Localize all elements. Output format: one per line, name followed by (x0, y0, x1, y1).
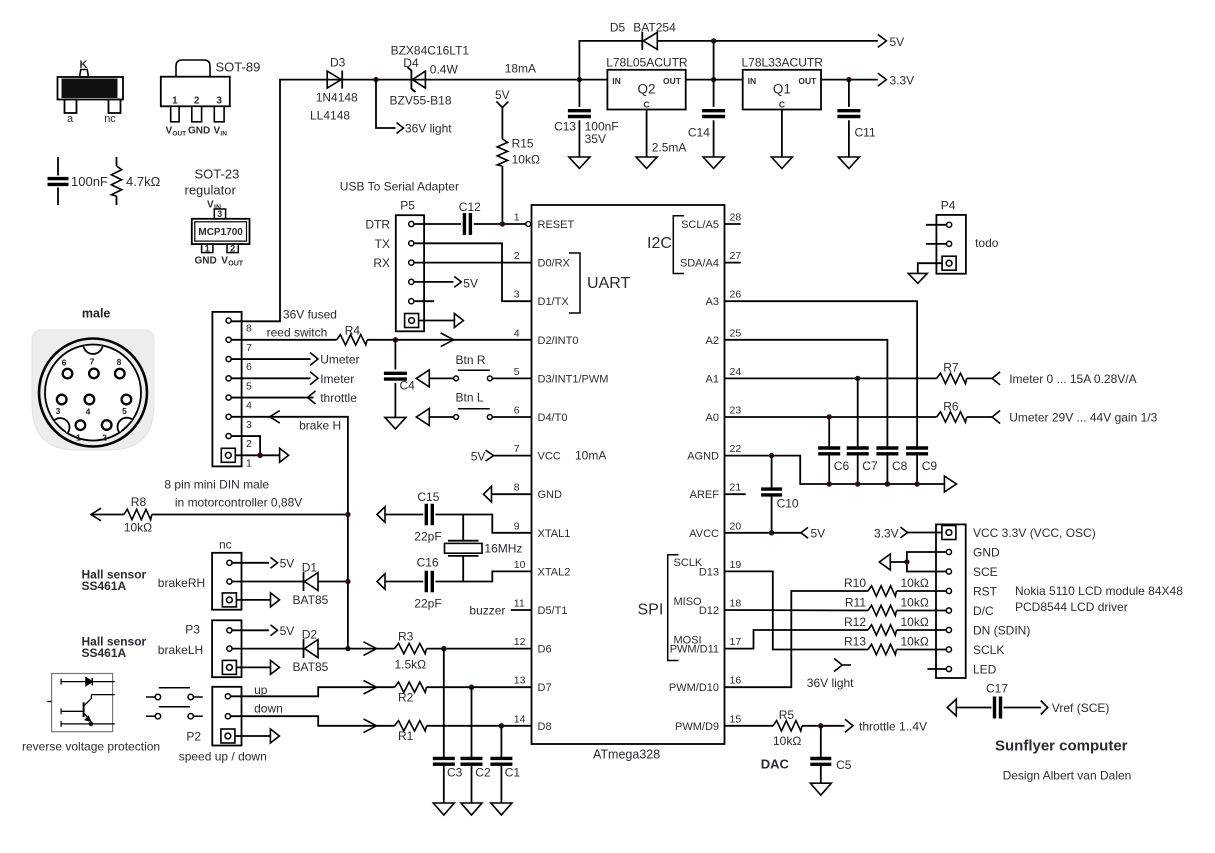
svg-text:3: 3 (216, 96, 222, 107)
svg-text:D5/T1: D5/T1 (538, 605, 568, 617)
crystal X1 16MHz (445, 541, 523, 556)
net arrow 5V at brakeRH (271, 557, 278, 568)
ground left of Btn L (416, 409, 429, 426)
connector P3 Hall sensor brakeLH (185, 620, 241, 677)
svg-text:2.5mA: 2.5mA (652, 141, 687, 155)
svg-text:P4: P4 (941, 199, 956, 213)
svg-text:20: 20 (730, 520, 742, 532)
regulator package SOT-89 (top view) (161, 60, 260, 138)
svg-text:Vref (SCE): Vref (SCE) (1052, 701, 1110, 715)
svg-text:D1: D1 (302, 561, 318, 575)
svg-text:C4: C4 (400, 379, 416, 393)
svg-text:AGND: AGND (687, 451, 719, 463)
wire: brakeRH shield pin (236, 599, 270, 601)
wire: A2 pin 25 to C8 (725, 340, 888, 447)
svg-text:RST: RST (973, 585, 998, 599)
signal chevron on D8 wire (364, 719, 377, 733)
UART bracket (569, 253, 580, 313)
svg-text:Imeter 0 ... 15A 0.28V/A: Imeter 0 ... 15A 0.28V/A (1009, 372, 1136, 386)
connector P4 (936, 199, 966, 274)
svg-text:R11: R11 (845, 596, 866, 610)
net arrow 3.3V (878, 73, 887, 86)
svg-text:10kΩ: 10kΩ (512, 153, 540, 167)
net chevron 5V to VCC (486, 450, 494, 461)
svg-text:8: 8 (117, 357, 122, 367)
svg-text:D1/TX: D1/TX (538, 296, 570, 308)
wire: brakeLH pin to D2 (232, 648, 303, 650)
svg-text:brake H: brake H (299, 418, 341, 432)
frame terminal right of DIN (280, 448, 289, 462)
svg-text:10kΩ: 10kΩ (901, 615, 929, 629)
svg-text:21: 21 (730, 482, 742, 494)
resistor 4.7kOhm (legend symbol) (111, 157, 160, 205)
net arrow Vref (SCE) (1041, 701, 1048, 715)
svg-text:R7: R7 (943, 361, 959, 375)
ground below C14 (703, 157, 724, 169)
svg-text:PWM/D9: PWM/D9 (675, 721, 719, 733)
wire: C16 to XTAL2 pin 10 (436, 571, 532, 581)
svg-text:BAT85: BAT85 (293, 593, 329, 607)
wire: P5 RX to D0/RX pin 2 (414, 262, 531, 264)
svg-text:4: 4 (514, 327, 520, 339)
svg-text:male: male (82, 307, 111, 321)
net arrow R8 output (91, 508, 101, 521)
svg-text:C12: C12 (459, 200, 481, 214)
svg-text:SS461A: SS461A (82, 579, 127, 593)
net chevron 36V light (LCD LED) (834, 659, 842, 672)
junction: AGND / C10 (769, 453, 774, 458)
svg-text:SDA/A4: SDA/A4 (680, 258, 719, 270)
svg-text:27: 27 (730, 250, 742, 262)
svg-text:I2C: I2C (647, 235, 672, 252)
ground at LCD (879, 554, 890, 570)
wire: C17 to Vref arrow (1004, 707, 1042, 709)
svg-text:C11: C11 (855, 126, 876, 140)
svg-text:C6: C6 (834, 459, 850, 473)
connector LCD Nokia 5110 (936, 524, 966, 678)
svg-text:VCC: VCC (538, 451, 561, 463)
ground at GND pin 8 (484, 486, 492, 502)
analog ground rail arrow (944, 476, 956, 492)
svg-text:down: down (254, 702, 283, 716)
svg-text:3: 3 (514, 289, 520, 301)
svg-text:D6: D6 (538, 644, 552, 656)
svg-text:XTAL2: XTAL2 (538, 566, 571, 578)
ground below C11 (838, 157, 859, 169)
svg-text:R8: R8 (131, 495, 147, 509)
svg-text:MCP1700: MCP1700 (198, 227, 243, 238)
svg-text:Imeter: Imeter (320, 372, 354, 386)
svg-text:13: 13 (514, 675, 526, 687)
wire: P4 pin3 to ground (918, 263, 942, 273)
svg-text:22pF: 22pF (414, 597, 441, 611)
svg-text:nc: nc (219, 538, 232, 552)
svg-text:up: up (254, 683, 268, 697)
wire: P3 shield pin (236, 666, 270, 668)
svg-text:R12: R12 (844, 615, 866, 629)
capacitor C7 (847, 378, 878, 484)
wire: SCL/A5 pin 28 stub (725, 223, 741, 225)
junction: A1 / C7 (855, 376, 860, 381)
svg-text:regulator: regulator (185, 183, 237, 198)
svg-text:D2: D2 (302, 628, 318, 642)
svg-text:10kΩ: 10kΩ (124, 521, 152, 535)
svg-text:28: 28 (730, 212, 742, 224)
junction: R8 / brake trunk (345, 512, 350, 517)
signal chevron on D2/INT0 wire (441, 333, 454, 347)
reverse voltage protection circuit drawing (47, 674, 114, 732)
svg-text:C9: C9 (922, 459, 938, 473)
svg-text:AREF: AREF (690, 489, 720, 501)
svg-text:23: 23 (730, 405, 742, 417)
svg-text:1.5kΩ: 1.5kΩ (395, 658, 427, 672)
wire: PWM/D9 pin 15 to R5 (725, 725, 774, 727)
svg-text:D8: D8 (538, 721, 552, 733)
svg-text:5V: 5V (471, 450, 486, 464)
pushbutton Btn R (429, 353, 531, 381)
connector P2 speed up/down (186, 687, 241, 746)
SPI bracket (668, 555, 679, 661)
svg-text:3.3V: 3.3V (890, 74, 915, 88)
inversion bubble on RESET (526, 222, 531, 227)
svg-text:R13: R13 (844, 635, 866, 649)
net arrow 5V at P5 (454, 277, 461, 288)
junction: 3.3V rail / C11 (846, 77, 851, 82)
svg-text:11: 11 (514, 598, 525, 610)
wire: Q1 C pin to ground (781, 110, 783, 158)
wire: D1 to brake trunk (318, 581, 348, 583)
wire: D5/T1 pin 11 stub (511, 609, 532, 611)
svg-text:speed up / down: speed up / down (179, 750, 267, 764)
ground below C2 (461, 803, 482, 815)
svg-text:19: 19 (730, 559, 742, 571)
wire: DIN pin4 throttle (232, 397, 314, 399)
svg-text:GND: GND (195, 256, 217, 267)
svg-text:7: 7 (90, 357, 95, 367)
svg-text:SCLK: SCLK (674, 557, 703, 569)
svg-text:2: 2 (246, 438, 252, 450)
junction: DIN pin1/pin2 (257, 453, 262, 458)
svg-text:1: 1 (76, 433, 81, 443)
svg-text:26: 26 (730, 289, 742, 301)
svg-text:PWM/D10: PWM/D10 (669, 682, 719, 694)
svg-text:3: 3 (246, 419, 252, 431)
capacitor C2 (461, 687, 491, 803)
pushbutton Btn L (429, 390, 531, 419)
net arrow brake H (270, 411, 280, 424)
svg-text:C10: C10 (777, 497, 799, 511)
svg-text:10kΩ: 10kΩ (901, 576, 929, 590)
frame terminal P3 (271, 660, 280, 674)
resistor R4 (337, 324, 368, 346)
svg-text:0.4W: 0.4W (430, 63, 459, 77)
svg-text:MISO: MISO (674, 596, 703, 608)
svg-text:reed switch: reed switch (267, 326, 328, 340)
svg-text:R2: R2 (398, 691, 414, 705)
resistor R7 (937, 361, 967, 384)
regulator MCP1700 SOT-23 pinout drawing (185, 167, 250, 268)
svg-text:3.3V: 3.3V (874, 527, 899, 541)
svg-text:AVCC: AVCC (689, 528, 719, 540)
svg-text:L78L33ACUTR: L78L33ACUTR (742, 56, 824, 70)
wire: P3 5V pin (232, 629, 269, 631)
capacitor C8 (876, 448, 907, 484)
svg-text:A2: A2 (706, 335, 719, 347)
svg-text:IN: IN (220, 131, 227, 138)
wire: P5 pin4 to 5V (414, 281, 453, 283)
svg-text:throttle: throttle (320, 391, 357, 405)
svg-text:ATmega328: ATmega328 (593, 748, 660, 762)
wire: A3 pin 26 to C9 (725, 301, 918, 446)
ground left of C16 (377, 574, 385, 590)
capacitor 100nF (legend symbol) (48, 157, 108, 205)
svg-text:2: 2 (102, 433, 107, 443)
svg-text:9: 9 (514, 520, 520, 532)
wire: AVCC pin 20 to 5V (725, 532, 802, 534)
svg-text:BAT254: BAT254 (633, 21, 676, 35)
wire: branch up to D5 and 5V rail (579, 41, 642, 80)
wire: D12 pin 18 to D/C row (725, 609, 869, 612)
wire: R4 to D2/INT0 pin 4 (367, 339, 531, 341)
svg-text:5V: 5V (463, 276, 478, 290)
svg-text:RESET: RESET (538, 219, 575, 231)
wire: R3 to D6 pin 12 (427, 648, 532, 650)
junction: R1 / C1 (499, 723, 504, 728)
svg-text:Umeter: Umeter (320, 353, 359, 367)
junction: C9 on rail (914, 481, 919, 486)
svg-text:1: 1 (246, 457, 252, 469)
svg-text:C17: C17 (986, 682, 1008, 696)
svg-text:XTAL1: XTAL1 (538, 528, 571, 540)
svg-text:1: 1 (514, 212, 520, 224)
svg-text:Nokia 5110 LCD module 84X48: Nokia 5110 LCD module 84X48 (1015, 584, 1183, 598)
svg-text:MOSI: MOSI (674, 635, 702, 647)
frame terminal right of P5 (454, 314, 463, 328)
svg-text:22pF: 22pF (414, 530, 441, 544)
svg-text:P2: P2 (186, 730, 201, 744)
wire: DIN pin1 to frame arrow (235, 454, 279, 456)
junction: C6 on rail (827, 481, 832, 486)
capacitor C15 22pF (385, 490, 442, 544)
svg-text:36V fused: 36V fused (283, 308, 337, 322)
junction: AVCC / C10 (769, 530, 774, 535)
resistor R10 10kOhm (844, 576, 929, 596)
svg-text:D4/T0: D4/T0 (538, 412, 568, 424)
svg-text:17: 17 (730, 636, 742, 648)
svg-text:LL4148: LL4148 (310, 109, 350, 123)
svg-text:2: 2 (514, 250, 520, 262)
svg-text:SOT-89: SOT-89 (216, 60, 261, 75)
wire: SDA/A4 pin 27 stub (725, 262, 741, 264)
svg-text:3: 3 (217, 209, 222, 219)
connector J1 8-pin mini DIN (212, 312, 252, 469)
svg-text:5: 5 (514, 366, 520, 378)
svg-text:5V: 5V (280, 624, 295, 638)
ground below Q2 (636, 157, 657, 169)
svg-text:5: 5 (246, 380, 252, 392)
svg-text:nc: nc (104, 113, 116, 125)
svg-text:P5: P5 (400, 199, 415, 213)
connector P5 (365, 199, 424, 332)
junction: R5 / C5 (818, 723, 823, 728)
switch down (speed down) (146, 707, 203, 719)
svg-text:16: 16 (730, 675, 742, 687)
svg-text:TX: TX (375, 237, 390, 251)
svg-text:14: 14 (514, 713, 526, 725)
svg-text:A1: A1 (706, 373, 719, 385)
wire: D13 pin 19 to SCLK row (725, 571, 869, 649)
wire: D11 pin 17 to DN row (725, 630, 869, 649)
capacitor C17 (986, 682, 1008, 719)
resistor R15 10kOhm (497, 137, 540, 167)
wire: nc pin to 5V (232, 562, 269, 564)
junction: D3 cathode / 36V light tap (373, 77, 378, 82)
svg-text:4: 4 (246, 400, 252, 412)
svg-text:Umeter 29V ... 44V gain 1/3: Umeter 29V ... 44V gain 1/3 (1009, 411, 1157, 425)
net arrow 5V at AVCC (801, 527, 808, 538)
svg-text:todo: todo (975, 236, 999, 250)
capacitor C6 (818, 417, 849, 484)
wire: 3.3V to LCD VCC (908, 532, 942, 534)
svg-text:1: 1 (172, 96, 178, 107)
signal chevron on D7 wire (364, 680, 377, 694)
resistor R2 (395, 682, 427, 705)
wire: arrow to R8 (91, 514, 124, 516)
svg-text:GND: GND (973, 546, 1000, 560)
svg-text:D12: D12 (699, 605, 719, 617)
wire: DIN pin5 Imeter (232, 377, 311, 379)
ground below C3 (433, 803, 454, 815)
svg-text:D5: D5 (610, 21, 626, 35)
wire: 36V light tap (376, 80, 396, 128)
svg-text:R1: R1 (398, 729, 414, 743)
wire: ground to C17 (956, 707, 991, 709)
svg-text:7: 7 (514, 443, 520, 455)
wire: chevron to R1 (363, 725, 395, 727)
wire: A1 pin 24 to R7 (725, 377, 937, 379)
net arrow 5V down (496, 102, 508, 108)
wire: Q2 C pin to ground (646, 110, 648, 158)
svg-text:D2/INT0: D2/INT0 (538, 335, 579, 347)
wire: P2 shield pin (235, 735, 271, 737)
regulator U-Q1 L78L33ACUTR (742, 56, 824, 110)
ground left of C17 (947, 699, 956, 716)
wire: DIN pin6 Umeter (232, 358, 311, 360)
svg-text:P3: P3 (185, 623, 200, 637)
svg-text:C3: C3 (447, 765, 463, 779)
wire: 5V to R15 (501, 108, 503, 140)
svg-text:R15: R15 (512, 137, 534, 151)
junction: R2 / C2 (469, 685, 474, 690)
svg-text:10kΩ: 10kΩ (901, 635, 929, 649)
svg-text:C13: C13 (554, 120, 576, 134)
svg-text:R3: R3 (398, 630, 414, 644)
svg-text:25: 25 (730, 327, 742, 339)
wire: P5 pin5 stub (414, 300, 434, 302)
signal chevron on D6 wire (364, 642, 377, 656)
wire: R10 to LCD RST (897, 590, 947, 592)
capacitor C10 (761, 456, 799, 533)
svg-text:5V: 5V (811, 527, 826, 541)
svg-text:2: 2 (230, 244, 235, 254)
svg-text:LED: LED (973, 663, 997, 677)
junction: C8 on rail (885, 481, 890, 486)
svg-text:C8: C8 (892, 459, 908, 473)
svg-text:C14: C14 (688, 126, 710, 140)
svg-text:10kΩ: 10kΩ (901, 596, 929, 610)
IC U1 ATmega328 body (532, 205, 725, 744)
capacitor C16 22pF (385, 556, 442, 611)
svg-text:C: C (643, 100, 649, 110)
svg-text:C2: C2 (475, 765, 491, 779)
diode D1 BAT85 (293, 561, 329, 608)
svg-text:OUT: OUT (798, 76, 817, 86)
svg-text:5: 5 (122, 406, 127, 416)
svg-text:Sunflyer computer: Sunflyer computer (995, 738, 1128, 755)
wire: R8 to brake trunk (152, 514, 348, 516)
svg-text:V: V (221, 256, 228, 267)
capacitor C14 (688, 41, 725, 157)
capacitor C9 (906, 448, 937, 484)
svg-text:USB To Serial Adapter: USB To Serial Adapter (340, 180, 459, 194)
wire: Q2 OUT to Q1 IN (686, 79, 743, 81)
svg-text:3: 3 (56, 406, 61, 416)
net chevron 3.3V to LCD (901, 527, 908, 538)
svg-text:IN: IN (748, 76, 757, 86)
net arrow Imeter (310, 372, 318, 385)
svg-text:brakeRH: brakeRH (158, 576, 205, 590)
svg-text:a: a (67, 113, 74, 125)
svg-text:R10: R10 (844, 576, 866, 590)
svg-text:R6: R6 (943, 400, 959, 414)
resistor R12 10kOhm (844, 615, 929, 635)
svg-text:R4: R4 (345, 324, 361, 338)
ground below C4 (385, 417, 406, 429)
junction: brake trunk / D2 / R3 (345, 646, 350, 651)
svg-text:reverse voltage protection: reverse voltage protection (22, 740, 160, 754)
svg-text:OUT: OUT (172, 131, 186, 138)
wire: DIN pin3 brake H trunk (232, 417, 348, 649)
wire: D10 pin 16 to RST row (725, 591, 869, 687)
svg-text:SS461A: SS461A (82, 646, 127, 660)
wire: C15 to XTAL1 pin 9 (436, 515, 532, 533)
resistor R5 10kOhm (773, 708, 802, 748)
wire: C12 to RESET pin 1 (474, 223, 526, 225)
svg-text:1N4148: 1N4148 (316, 91, 358, 105)
svg-text:22: 22 (730, 443, 742, 455)
ground below Q1 (771, 157, 792, 169)
wire: 5V rail to arrow (657, 40, 878, 42)
svg-text:R5: R5 (779, 708, 795, 722)
svg-text:BZV55-B18: BZV55-B18 (390, 94, 452, 108)
junction: LCD GND/SCE ground tap (904, 559, 909, 564)
svg-text:18: 18 (730, 598, 742, 610)
junction: C7 on rail (855, 481, 860, 486)
svg-text:A0: A0 (706, 412, 719, 424)
wire: R1 to D8 pin 14 (427, 725, 532, 727)
wire: P5 TX to D1/TX pin 3 (414, 243, 531, 301)
wire: DIN pin2 join pin1 (232, 436, 261, 455)
svg-text:Q1: Q1 (773, 82, 791, 97)
svg-text:SPI: SPI (638, 602, 664, 619)
svg-text:V: V (207, 200, 214, 211)
svg-text:RX: RX (373, 256, 390, 270)
svg-text:1: 1 (205, 244, 210, 254)
svg-text:D/C: D/C (973, 604, 994, 618)
svg-text:C15: C15 (417, 490, 439, 504)
svg-text:Design Albert van Dalen: Design Albert van Dalen (1003, 769, 1132, 783)
wire: A0 pin 23 to R6 (725, 416, 937, 418)
